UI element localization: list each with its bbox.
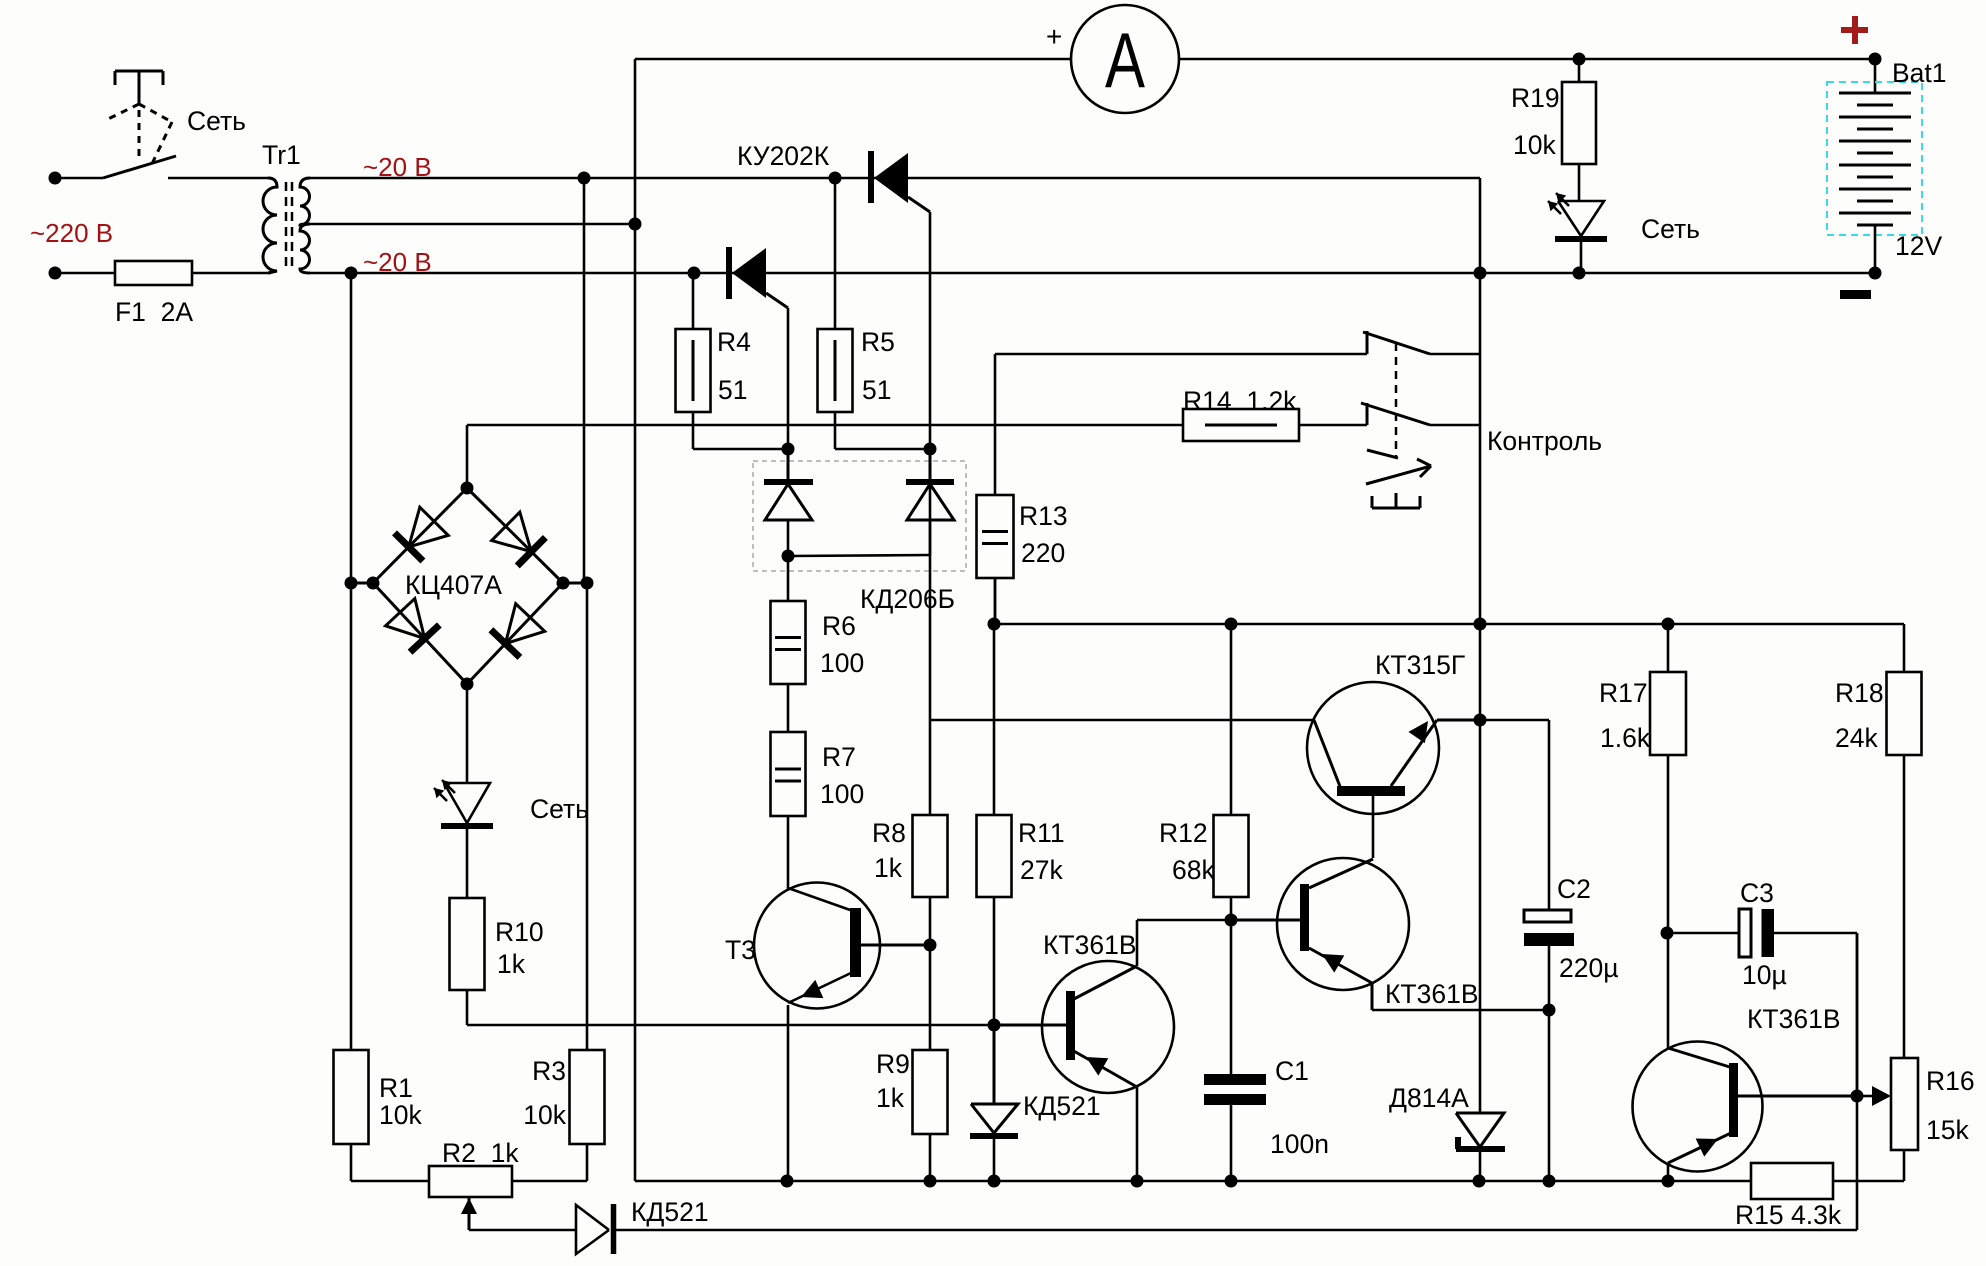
svg-text:100: 100 bbox=[820, 648, 864, 678]
svg-text:КД521: КД521 bbox=[631, 1197, 709, 1227]
svg-text:C2: C2 bbox=[1557, 874, 1591, 904]
svg-text:КД521: КД521 bbox=[1023, 1091, 1101, 1121]
svg-text:1.6k: 1.6k bbox=[1600, 723, 1651, 753]
svg-text:R8: R8 bbox=[872, 818, 906, 848]
svg-text:КТ315Г: КТ315Г bbox=[1375, 650, 1465, 680]
svg-text:1k: 1k bbox=[876, 1083, 905, 1113]
svg-text:68k: 68k bbox=[1172, 855, 1215, 885]
svg-text:R7: R7 bbox=[822, 742, 856, 772]
svg-text:1k: 1k bbox=[497, 949, 526, 979]
svg-text:R11: R11 bbox=[1018, 818, 1065, 848]
svg-text:F1 2A: F1 2A bbox=[115, 297, 193, 327]
svg-text:24k: 24k bbox=[1835, 723, 1878, 753]
svg-text:100: 100 bbox=[820, 779, 864, 809]
svg-text:R3: R3 bbox=[532, 1056, 566, 1086]
svg-text:Контроль: Контроль bbox=[1487, 426, 1602, 456]
svg-text:КТ361В: КТ361В bbox=[1747, 1004, 1841, 1034]
svg-text:51: 51 bbox=[862, 375, 891, 405]
svg-text:C3: C3 bbox=[1740, 878, 1774, 908]
svg-text:КУ202К: КУ202К bbox=[737, 141, 830, 171]
svg-text:R16: R16 bbox=[1926, 1066, 1975, 1096]
svg-text:R10: R10 bbox=[495, 917, 544, 947]
svg-text:100n: 100n bbox=[1270, 1129, 1329, 1159]
svg-text:Bat1: Bat1 bbox=[1892, 58, 1947, 88]
svg-text:КЦ407А: КЦ407А bbox=[405, 570, 502, 600]
svg-text:220µ: 220µ bbox=[1559, 953, 1618, 983]
svg-text:51: 51 bbox=[718, 375, 747, 405]
svg-text:R5: R5 bbox=[861, 327, 895, 357]
svg-text:КТ361В: КТ361В bbox=[1043, 930, 1137, 960]
svg-text:T3: T3 bbox=[725, 935, 756, 965]
svg-text:R6: R6 bbox=[822, 611, 856, 641]
svg-text:Сеть: Сеть bbox=[187, 106, 246, 136]
svg-text:27k: 27k bbox=[1020, 855, 1063, 885]
svg-text:10k: 10k bbox=[523, 1100, 566, 1130]
svg-text:15k: 15k bbox=[1926, 1115, 1969, 1145]
svg-text:+: + bbox=[1046, 21, 1062, 52]
svg-text:12V: 12V bbox=[1895, 231, 1942, 261]
svg-text:~20 В: ~20 В bbox=[363, 152, 432, 182]
svg-text:R14 1.2k: R14 1.2k bbox=[1183, 386, 1297, 416]
svg-text:КТ361В: КТ361В bbox=[1385, 979, 1479, 1009]
svg-text:Tr1: Tr1 bbox=[262, 140, 301, 170]
svg-text:10k: 10k bbox=[379, 1100, 422, 1130]
svg-text:R9: R9 bbox=[876, 1049, 910, 1079]
svg-text:R12: R12 bbox=[1159, 818, 1208, 848]
svg-text:10k: 10k bbox=[1513, 130, 1556, 160]
svg-text:R1: R1 bbox=[379, 1073, 413, 1103]
svg-text:R17: R17 bbox=[1599, 678, 1648, 708]
svg-text:~20 В: ~20 В bbox=[363, 247, 432, 277]
svg-text:R2 1k: R2 1k bbox=[442, 1138, 519, 1168]
svg-text:R4: R4 bbox=[717, 327, 751, 357]
svg-text:10µ: 10µ bbox=[1742, 960, 1787, 990]
svg-text:R13: R13 bbox=[1019, 501, 1068, 531]
svg-text:220: 220 bbox=[1021, 538, 1065, 568]
svg-text:КД206Б: КД206Б bbox=[860, 584, 955, 614]
svg-text:~220 В: ~220 В bbox=[30, 218, 113, 248]
svg-text:R15 4.3k: R15 4.3k bbox=[1735, 1200, 1842, 1230]
svg-text:Д814А: Д814А bbox=[1389, 1083, 1469, 1113]
svg-text:Сеть: Сеть bbox=[530, 794, 589, 824]
svg-text:R19: R19 bbox=[1511, 83, 1560, 113]
svg-text:R18: R18 bbox=[1835, 678, 1884, 708]
svg-text:1k: 1k bbox=[874, 853, 903, 883]
svg-text:C1: C1 bbox=[1275, 1056, 1309, 1086]
svg-text:A: A bbox=[1105, 16, 1145, 104]
svg-text:Сеть: Сеть bbox=[1641, 214, 1700, 244]
